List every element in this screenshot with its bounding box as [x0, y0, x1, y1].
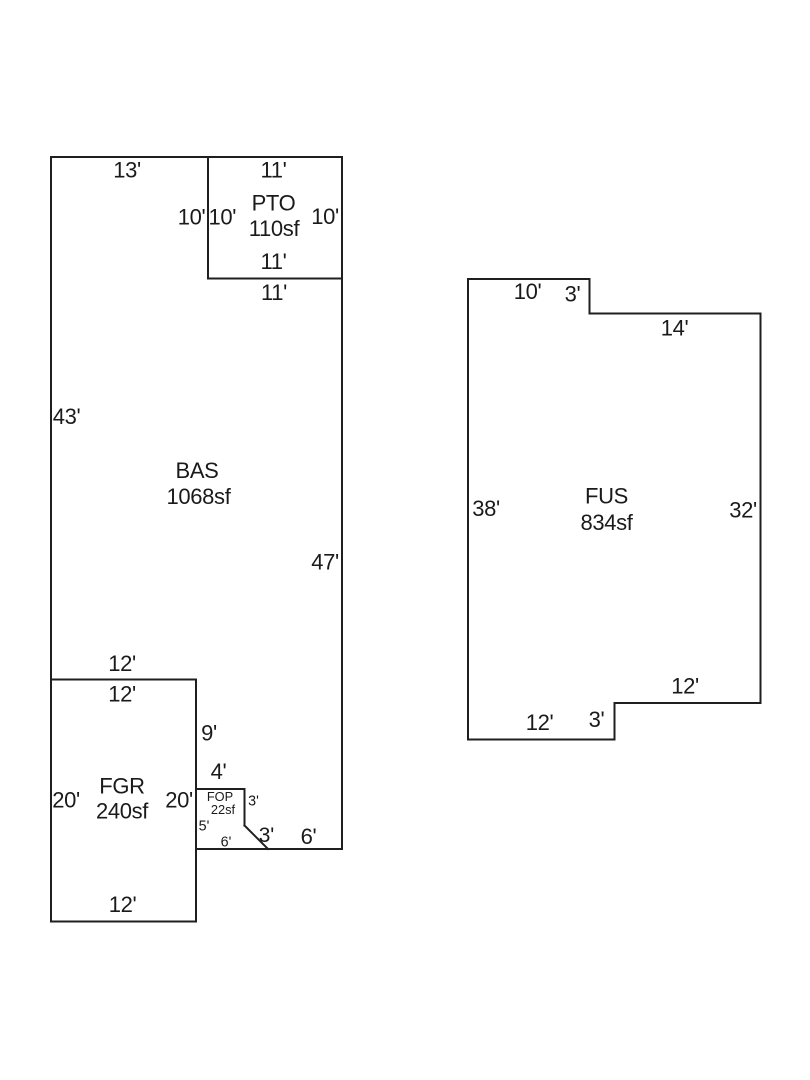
wall: FUS bottom edge: [468, 739, 615, 741]
wall: FUS top-left top edge: [468, 278, 590, 280]
svg-text:14': 14': [661, 316, 689, 341]
wall: PTO bottom edge: [208, 278, 342, 280]
svg-text:47': 47': [311, 550, 339, 575]
svg-text:32': 32': [729, 498, 757, 523]
wall: FUS top-right top edge: [590, 313, 761, 315]
svg-text:12': 12': [108, 651, 136, 676]
svg-text:110sf: 110sf: [249, 216, 301, 241]
wall: FUS left edge: [467, 279, 469, 740]
svg-text:11': 11': [261, 280, 287, 305]
svg-text:12': 12': [671, 674, 699, 699]
svg-text:38': 38': [472, 496, 500, 521]
svg-text:10': 10': [514, 279, 542, 304]
svg-text:PTO: PTO: [252, 191, 296, 216]
wall: FOP right edge: [244, 789, 246, 826]
svg-text:834sf: 834sf: [580, 510, 633, 535]
wall: FGR right edge: [195, 680, 197, 922]
svg-text:43': 43': [53, 404, 81, 429]
svg-text:3': 3': [565, 282, 581, 307]
wall: PTO left edge: [207, 157, 209, 279]
svg-text:FUS: FUS: [585, 484, 628, 509]
svg-text:FGR: FGR: [99, 774, 144, 799]
svg-text:10': 10': [311, 204, 339, 229]
wall: FUS bottom-right edge: [615, 702, 761, 704]
svg-text:10': 10': [208, 205, 236, 230]
wall: BAS+FGR left edge: [50, 157, 52, 922]
svg-text:20': 20': [165, 788, 193, 813]
wall: BAS/PTO top edge: [51, 156, 342, 158]
svg-text:3': 3': [259, 824, 275, 847]
svg-text:4': 4': [211, 759, 227, 784]
svg-text:6': 6': [301, 824, 317, 849]
svg-text:12': 12': [108, 682, 136, 707]
svg-text:1068sf: 1068sf: [167, 484, 232, 509]
svg-text:3': 3': [248, 794, 259, 810]
svg-text:240sf: 240sf: [96, 799, 149, 824]
svg-text:BAS: BAS: [176, 458, 219, 483]
svg-text:12': 12': [526, 710, 554, 735]
wall: FUS bottom notch edge: [614, 703, 616, 740]
wall: FUS top step edge: [589, 279, 591, 314]
svg-text:6': 6': [221, 835, 232, 851]
svg-text:22sf: 22sf: [211, 802, 236, 817]
svg-text:11': 11': [261, 158, 287, 183]
svg-text:13': 13': [113, 158, 141, 183]
wall: FOP top edge: [196, 788, 245, 790]
svg-text:5': 5': [199, 819, 210, 835]
svg-text:12': 12': [109, 892, 137, 917]
svg-text:10': 10': [178, 205, 206, 230]
wall: BAS bottom edge: [196, 848, 342, 850]
svg-text:3': 3': [589, 707, 605, 732]
svg-text:20': 20': [52, 788, 80, 813]
wall: FUS right edge: [760, 314, 762, 704]
wall: FGR top edge: [51, 679, 196, 681]
wall: BAS right edge: [341, 157, 343, 849]
svg-text:11': 11': [261, 249, 287, 274]
wall: FGR bottom edge: [51, 921, 196, 923]
svg-text:9': 9': [201, 721, 217, 746]
wall: FOP diagonal edge: [245, 826, 269, 850]
